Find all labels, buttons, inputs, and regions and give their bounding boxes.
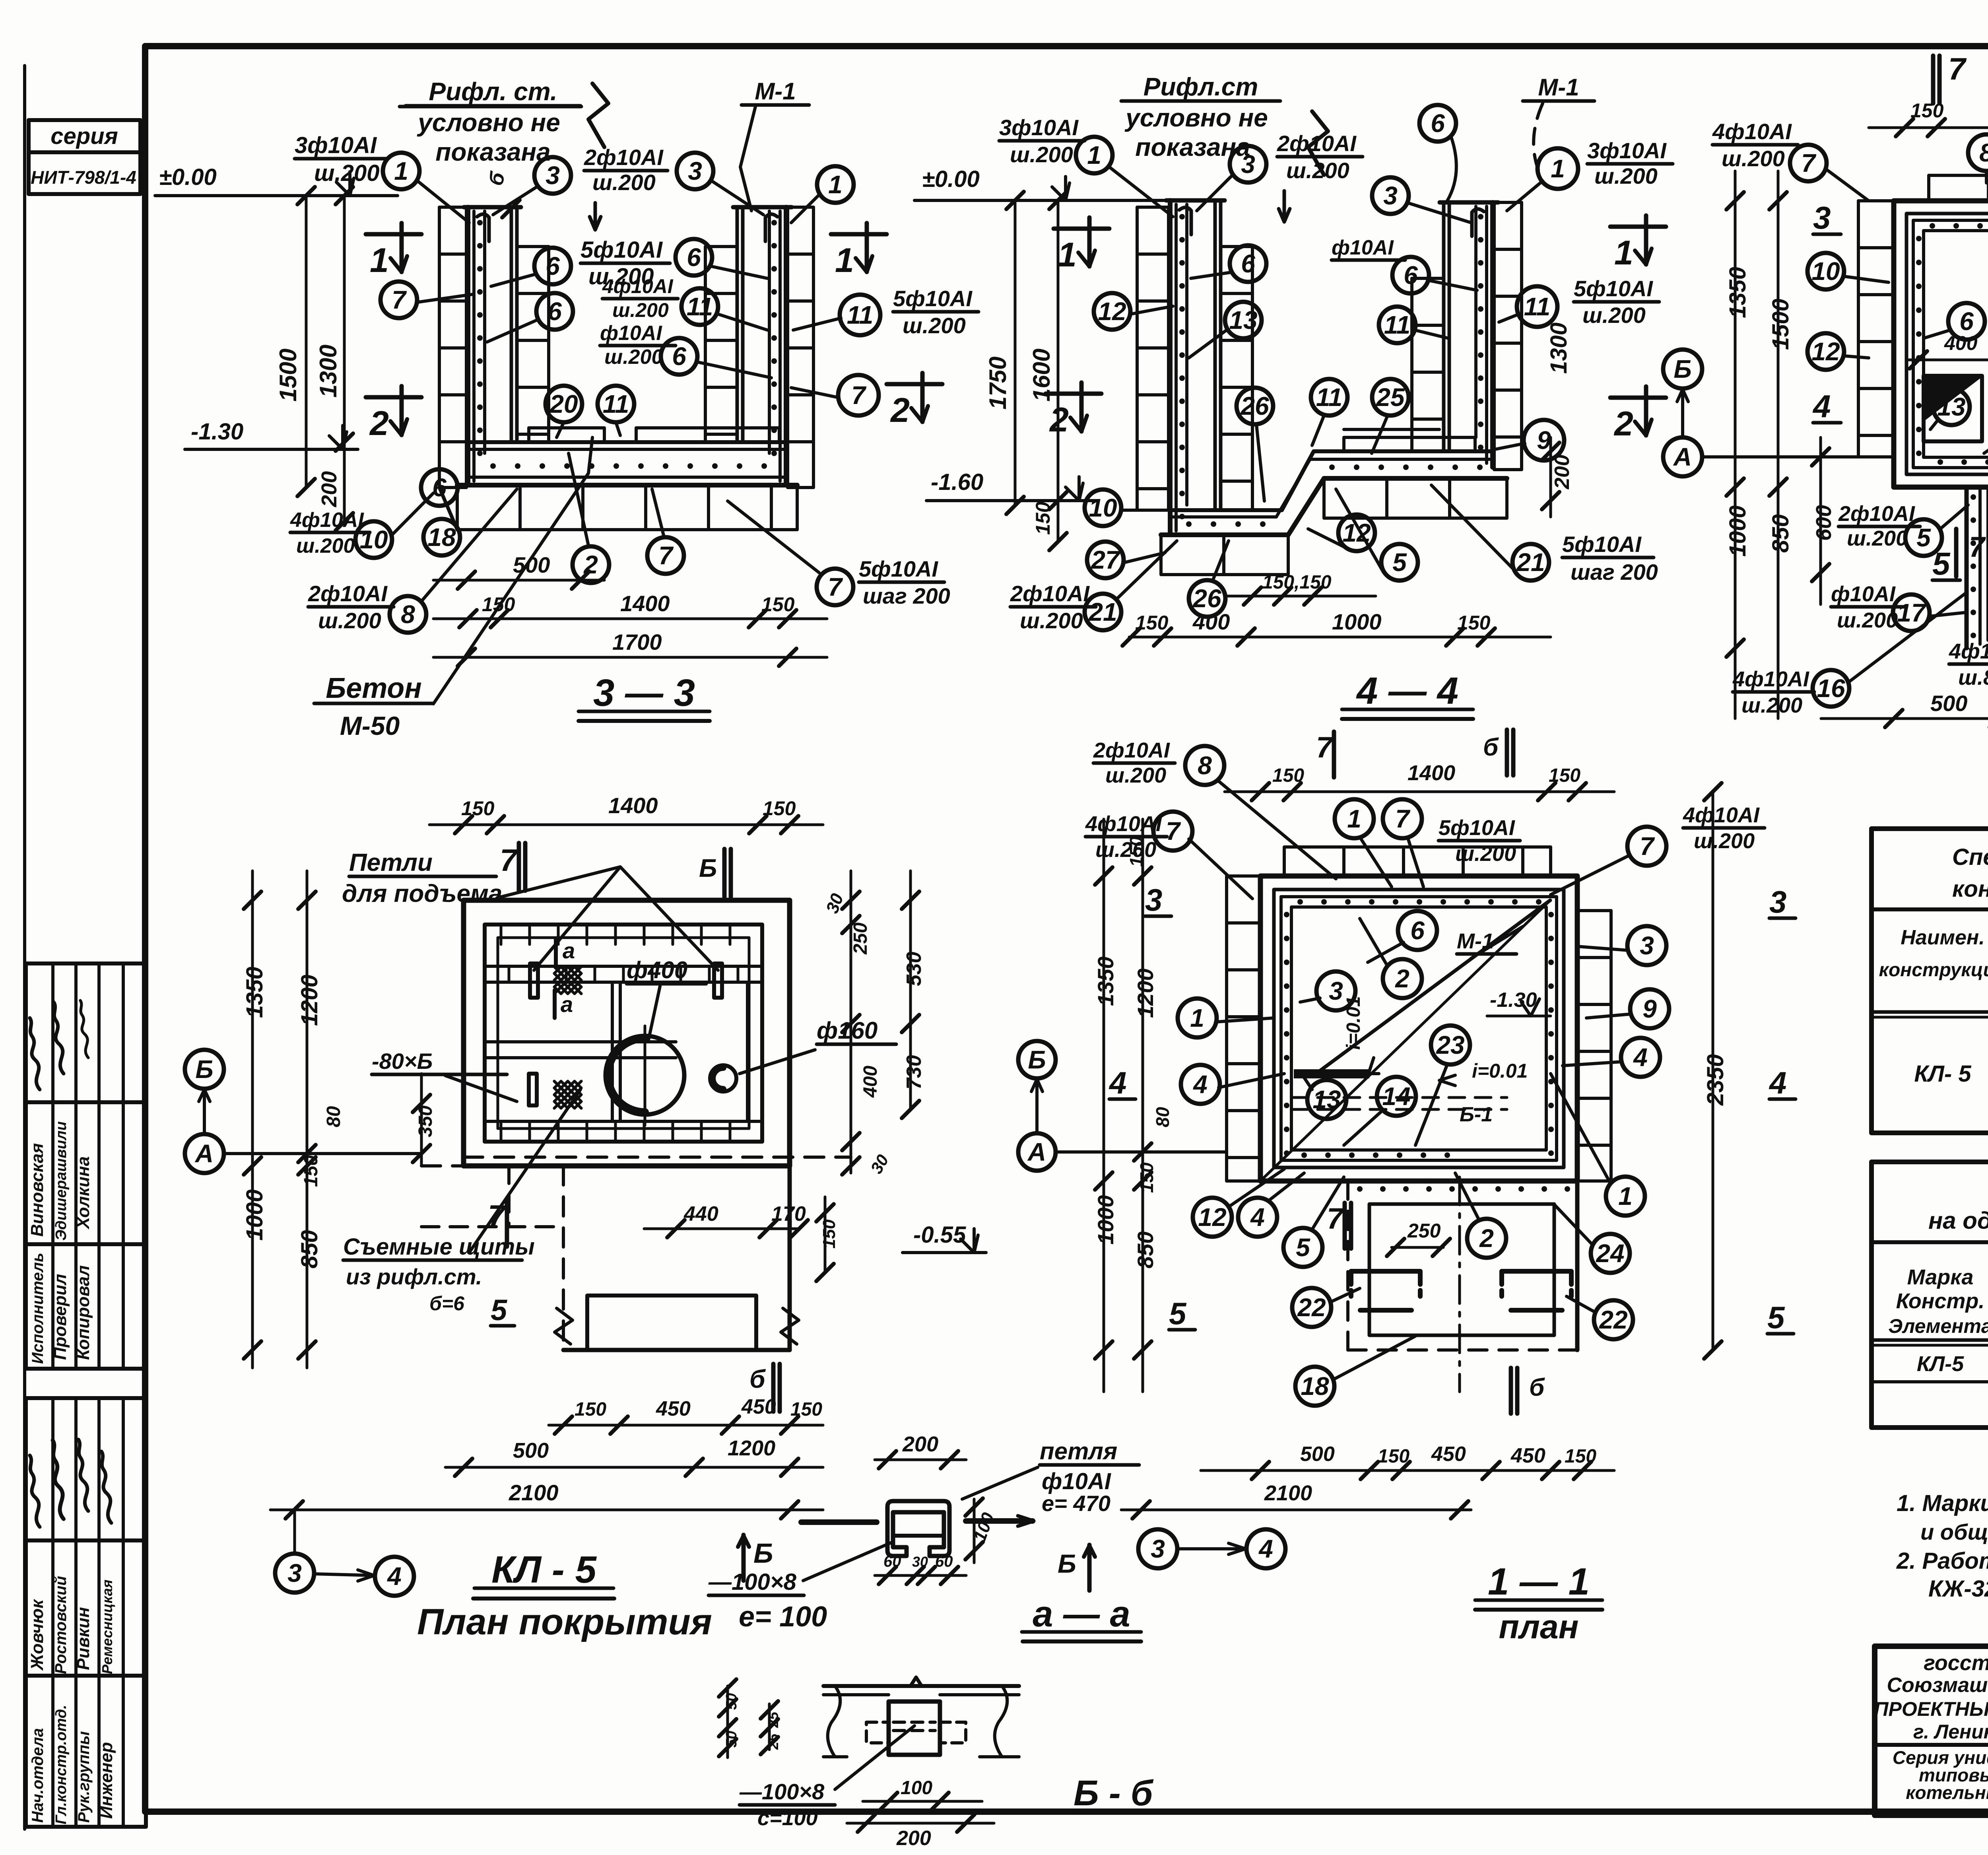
svg-text:500: 500 — [1930, 691, 1967, 716]
svg-text:НИТ-798/1-4: НИТ-798/1-4 — [31, 167, 136, 188]
svg-text:Ростовский: Ростовский — [52, 1576, 70, 1674]
svg-text:7: 7 — [488, 1198, 507, 1233]
svg-text:КЛ- 5: КЛ- 5 — [1914, 1061, 1971, 1087]
svg-text:ф10АI: ф10АI — [600, 322, 662, 345]
svg-text:шаг 200: шаг 200 — [863, 583, 950, 608]
svg-text:ш.200: ш.200 — [1722, 146, 1785, 171]
svg-text:2ф10АI: 2ф10АI — [584, 145, 664, 170]
svg-text:-1.30: -1.30 — [191, 419, 243, 445]
svg-text:3ф10АI: 3ф10АI — [295, 132, 377, 158]
svg-text:1750: 1750 — [984, 357, 1011, 410]
svg-text:3ф10АI: 3ф10АI — [1587, 138, 1667, 163]
2-2 interior positions — [1807, 223, 1988, 577]
svg-text:2ф10АI: 2ф10АI — [1010, 581, 1090, 606]
svg-text:5ф10АI: 5ф10АI — [1562, 532, 1642, 557]
план покрытия КЛ-5 — [421, 900, 851, 1350]
svg-text:450: 450 — [1431, 1443, 1466, 1466]
3-3 pos.6/18/10 bottom left — [290, 469, 460, 558]
svg-text:Эдишерашвили: Эдишерашвили — [53, 1121, 70, 1241]
svg-text:ф10АI: ф10АI — [1831, 582, 1896, 606]
svg-text:М-1: М-1 — [1538, 74, 1579, 101]
svg-text:26: 26 — [1192, 584, 1221, 613]
svg-text:2: 2 — [1049, 401, 1069, 439]
1-1 axis labels 3/4/5 — [1109, 882, 1796, 1335]
svg-text:4: 4 — [1769, 1065, 1786, 1100]
svg-text:2: 2 — [890, 391, 910, 429]
svg-text:3: 3 — [1813, 200, 1831, 235]
svg-text:25: 25 — [1376, 383, 1405, 412]
svg-text:6: 6 — [1410, 916, 1425, 945]
svg-text:из рифл.ст.: из рифл.ст. — [346, 1264, 482, 1289]
svg-text:Петли: Петли — [349, 849, 433, 876]
svg-text:ш.200: ш.200 — [1010, 142, 1073, 167]
svg-text:Жовчюк: Жовчюк — [27, 1599, 47, 1671]
2-2 bottom dimension chain — [1821, 682, 1988, 732]
svg-text:150: 150 — [1032, 501, 1054, 535]
svg-text:2: 2 — [369, 404, 389, 443]
svg-text:60: 60 — [935, 1553, 953, 1570]
svg-text:11: 11 — [687, 292, 713, 321]
svg-text:шаг 200: шаг 200 — [1571, 559, 1658, 585]
svg-text:Рифл.ст: Рифл.ст — [1143, 72, 1258, 101]
svg-text:6: 6 — [672, 342, 686, 371]
svg-text:-0.55: -0.55 — [913, 1222, 966, 1248]
4-4 pos.3 2ф10АI — [1197, 131, 1363, 222]
svg-text:4: 4 — [1250, 1203, 1265, 1231]
svg-text:1200: 1200 — [1133, 968, 1158, 1018]
3-3 cut mark 1 right — [831, 223, 887, 280]
svg-text:1: 1 — [1551, 154, 1565, 183]
3-3 note рифл.ст. условно не показана — [400, 77, 608, 166]
svg-text:1700: 1700 — [612, 629, 662, 655]
svg-text:11: 11 — [603, 390, 629, 418]
svg-text:ш.200: ш.200 — [1105, 763, 1166, 787]
svg-text:6: 6 — [1241, 249, 1255, 278]
svg-text:5ф10АI: 5ф10АI — [580, 237, 663, 263]
svg-text:8: 8 — [401, 600, 415, 629]
svg-text:2: 2 — [1395, 964, 1409, 993]
svg-text:М-50: М-50 — [340, 711, 400, 740]
svg-text:150: 150 — [575, 1399, 606, 1420]
svg-text:ш.200: ш.200 — [612, 299, 669, 321]
svg-text:б: б — [1529, 1374, 1545, 1401]
svg-text:-1.30: -1.30 — [1490, 989, 1537, 1012]
svg-text:13: 13 — [1229, 306, 1257, 334]
3-3 cut mark 2 — [366, 386, 421, 443]
svg-text:11: 11 — [847, 301, 873, 329]
план покрытия top dims — [429, 793, 823, 897]
svg-text:850: 850 — [1133, 1231, 1158, 1268]
svg-text:е= 470: е= 470 — [1042, 1491, 1110, 1516]
svg-text:200: 200 — [902, 1432, 938, 1456]
svg-text:7: 7 — [1801, 149, 1817, 177]
4-4 title — [1342, 670, 1473, 719]
3-3 title — [579, 672, 710, 721]
svg-text:10: 10 — [1089, 493, 1117, 522]
svg-text:18: 18 — [1301, 1372, 1329, 1400]
left trim line — [23, 66, 26, 1829]
svg-text:5ф10АI: 5ф10АI — [1439, 816, 1515, 840]
svg-text:а: а — [561, 992, 573, 1017]
3-3 bottom dimension chains — [433, 552, 827, 666]
svg-text:План покрытия: План покрытия — [417, 1602, 712, 1642]
svg-text:16: 16 — [1817, 674, 1845, 703]
svg-text:3: 3 — [1241, 150, 1255, 179]
svg-text:Б: Б — [1028, 1045, 1046, 1074]
svg-text:на один конструктивный элем: на один конструктивный элемент — [1928, 1207, 1988, 1234]
svg-text:7: 7 — [851, 381, 867, 410]
svg-text:26: 26 — [1240, 392, 1269, 420]
1-1 bottom positions — [1193, 1169, 1633, 1414]
svg-text:450: 450 — [741, 1395, 776, 1418]
svg-text:ш.200: ш.200 — [1020, 608, 1083, 633]
svg-text:ф400: ф400 — [627, 957, 687, 983]
svg-text:400: 400 — [1192, 609, 1230, 634]
svg-text:1000: 1000 — [1725, 505, 1751, 557]
svg-text:6: 6 — [1431, 109, 1445, 138]
svg-text:г. Ленинград 1967г.: г. Ленинград 1967г. — [1913, 1721, 1988, 1743]
svg-text:4 — 4: 4 — 4 — [1356, 670, 1458, 712]
svg-text:3: 3 — [1383, 181, 1398, 210]
а-а title — [1022, 1594, 1141, 1641]
4-4 note рифл.ст. — [1121, 72, 1328, 175]
svg-text:9: 9 — [1642, 995, 1657, 1023]
3-3 pos.6 5ф10АI ш.200 — [491, 237, 670, 289]
svg-text:1: 1 — [1614, 234, 1633, 272]
svg-text:7: 7 — [1316, 731, 1334, 764]
svg-text:а: а — [563, 938, 575, 963]
svg-text:500: 500 — [1300, 1443, 1335, 1466]
план покрытия label ф160 — [740, 1017, 896, 1074]
svg-text:4ф10АI: 4ф10АI — [1085, 812, 1162, 836]
svg-text:1: 1 — [1058, 236, 1077, 274]
4-4 pos.11 pair right — [1379, 276, 1659, 374]
а-а labels — [708, 1438, 1139, 1633]
svg-text:Б: Б — [753, 1538, 773, 1569]
svg-text:400: 400 — [860, 1066, 881, 1098]
svg-text:11: 11 — [1524, 292, 1550, 321]
series box серия НИТ-798/1-4 — [29, 120, 140, 194]
svg-text:100: 100 — [901, 1777, 932, 1799]
svg-text:3: 3 — [688, 157, 702, 185]
svg-text:5: 5 — [1767, 1300, 1785, 1335]
svg-text:петля: петля — [1040, 1438, 1117, 1465]
svg-text:Б: Б — [195, 1055, 213, 1084]
svg-text:1350: 1350 — [1725, 267, 1751, 318]
svg-text:i=0.01: i=0.01 — [1472, 1060, 1528, 1082]
svg-text:7: 7 — [392, 286, 407, 314]
svg-text:Инженер: Инженер — [97, 1742, 116, 1819]
svg-text:3: 3 — [287, 1559, 302, 1587]
svg-text:23: 23 — [1436, 1031, 1464, 1059]
svg-text:1: 1 — [1190, 1004, 1204, 1032]
svg-text:ш.200: ш.200 — [1582, 303, 1646, 328]
svg-text:КЛ - 5: КЛ - 5 — [491, 1548, 597, 1591]
3-3 pos.2 pos.7 pos.7 bottom — [569, 453, 950, 608]
3-3 pos.11 pos.7 far right — [791, 286, 978, 416]
svg-text:1: 1 — [835, 241, 854, 280]
svg-text:20: 20 — [549, 390, 578, 418]
svg-text:-1.60: -1.60 — [931, 469, 983, 495]
svg-text:4: 4 — [386, 1562, 402, 1591]
svg-text:850: 850 — [1768, 514, 1794, 553]
svg-text:i=0.01: i=0.01 — [1343, 996, 1364, 1050]
svg-text:7: 7 — [1166, 817, 1181, 845]
svg-text:13: 13 — [1937, 392, 1965, 421]
svg-text:4: 4 — [1258, 1535, 1273, 1563]
svg-text:ш.200: ш.200 — [1594, 163, 1658, 188]
svg-text:150: 150 — [1910, 99, 1944, 122]
svg-text:1400: 1400 — [608, 793, 658, 818]
svg-text:500: 500 — [513, 1439, 549, 1463]
svg-text:150: 150 — [1126, 836, 1147, 867]
svg-text:Б-1: Б-1 — [1460, 1103, 1493, 1126]
svg-text:б=6: б=6 — [429, 1292, 465, 1315]
svg-text:150: 150 — [1457, 612, 1491, 634]
3-3 pos.7 left — [381, 282, 473, 318]
1-1 bottom dims — [1121, 1443, 1614, 1519]
svg-text:150: 150 — [1565, 1446, 1596, 1467]
план покрытия left dims — [242, 871, 436, 1368]
svg-text:и общие примечания даны на: и общие примечания даны на листе кж-5 — [1920, 1519, 1988, 1544]
svg-text:5ф10АI: 5ф10АI — [1574, 276, 1653, 301]
svg-text:1350: 1350 — [1093, 956, 1118, 1006]
svg-text:план: план — [1499, 1608, 1578, 1645]
svg-text:440: 440 — [683, 1202, 718, 1226]
svg-text:12: 12 — [1098, 297, 1126, 326]
svg-text:4ф10АI: 4ф10АI — [1683, 803, 1760, 827]
svg-text:Б: Б — [1673, 355, 1691, 383]
svg-text:80: 80 — [323, 1106, 344, 1127]
svg-text:6: 6 — [687, 243, 701, 272]
3-3 pos.20 pos.11 above slab — [546, 386, 634, 437]
svg-text:150: 150 — [1136, 1162, 1157, 1193]
section 1-1 plan view — [1227, 847, 1611, 1392]
svg-text:1300: 1300 — [1546, 322, 1572, 374]
svg-text:Ривкин: Ривкин — [74, 1607, 93, 1670]
3-3 pos.3 and pos.1 right wall — [677, 153, 854, 223]
svg-text:4ф10АI: 4ф10АI — [602, 275, 674, 297]
а-а dims — [875, 1432, 998, 1584]
svg-text:б: б — [749, 1365, 766, 1393]
1-1 right dim 2350 — [1703, 783, 1728, 1359]
svg-text:250: 250 — [1407, 1220, 1441, 1242]
svg-text:6: 6 — [432, 473, 447, 502]
svg-text:3: 3 — [1151, 1535, 1165, 1563]
svg-text:150: 150 — [1549, 765, 1580, 786]
svg-text:150: 150 — [819, 1219, 839, 1249]
3-3 pos.8 2ф10АI — [308, 489, 517, 633]
3-3 pos.6 with ф10АI — [600, 322, 771, 378]
svg-text:ш.200: ш.200 — [314, 160, 379, 186]
план покрытия label съемные щиты — [343, 1090, 580, 1327]
svg-text:150: 150 — [763, 797, 796, 820]
svg-text:4: 4 — [1192, 1070, 1208, 1099]
margin signature table lower (Нач.отдела/Гл.констр.отд/Рук.группы/Инженер) — [26, 1398, 146, 1827]
svg-text:27: 27 — [1091, 546, 1121, 574]
4-4 bottom dimension chains — [1122, 572, 1551, 646]
1-1 U-bracket details — [1351, 1271, 1571, 1310]
svg-text:5: 5 — [1296, 1233, 1310, 1262]
3-3 pos.11 with 4ф10АI — [602, 275, 767, 330]
3-3 label 3ф10АI ш.200 with pos.1 — [295, 132, 469, 223]
1-1 interior positions — [1178, 911, 1669, 1216]
svg-text:6: 6 — [546, 252, 560, 280]
svg-text:150,150: 150,150 — [1262, 572, 1332, 593]
Б-Б dims — [719, 1679, 994, 1850]
section 2-2 plan view — [1858, 175, 1988, 648]
svg-text:2100: 2100 — [509, 1480, 559, 1505]
svg-text:600: 600 — [1812, 505, 1836, 541]
svg-text:4: 4 — [1812, 388, 1831, 424]
svg-text:10: 10 — [359, 525, 388, 554]
svg-text:7: 7 — [658, 541, 674, 570]
svg-text:условно не: условно не — [417, 108, 560, 137]
примечания notes — [1896, 1441, 1988, 1602]
svg-text:1: 1 — [1087, 141, 1101, 169]
svg-text:150: 150 — [1135, 612, 1169, 634]
svg-text:7: 7 — [500, 843, 518, 878]
svg-text:ПРОЕКТНЫЙ ИНСТИТУТ N1: ПРОЕКТНЫЙ ИНСТИТУТ N1 — [1874, 1698, 1988, 1720]
svg-text:11: 11 — [1316, 383, 1342, 412]
svg-text:530: 530 — [903, 952, 926, 986]
svg-text:3: 3 — [1145, 882, 1162, 917]
svg-text:3 — 3: 3 — 3 — [593, 672, 695, 714]
4-4 cut marks 1 — [1054, 218, 1109, 274]
svg-text:2100: 2100 — [1264, 1481, 1312, 1505]
svg-text:ш.200: ш.200 — [592, 170, 656, 195]
4-4 cut marks 2 — [1046, 383, 1101, 439]
svg-text:24: 24 — [1596, 1239, 1624, 1268]
svg-text:450: 450 — [1510, 1444, 1545, 1467]
svg-text:7: 7 — [1395, 804, 1411, 833]
svg-text:1: 1 — [394, 157, 408, 185]
svg-text:25: 25 — [765, 1733, 781, 1750]
svg-text:21: 21 — [1516, 548, 1545, 577]
svg-text:ш.200: ш.200 — [1847, 526, 1908, 550]
2-2 lower labels — [1732, 502, 1988, 717]
svg-text:с=100: с=100 — [757, 1806, 818, 1830]
4-4 left dimension chain 1750/1600/150 — [984, 192, 1067, 550]
svg-text:150: 150 — [1378, 1446, 1409, 1467]
4-4 pos.6 pos.12 pos.13 left wall — [1094, 245, 1266, 358]
svg-text:конструкций на лист.: конструкций на лист. — [1952, 876, 1988, 902]
4-4 pos.9 right — [1495, 420, 1574, 517]
svg-text:Наимен.: Наимен. — [1901, 926, 1984, 949]
svg-text:Б: Б — [699, 854, 717, 882]
svg-text:1200: 1200 — [728, 1436, 775, 1460]
svg-text:22: 22 — [1599, 1305, 1627, 1334]
detail а-а C-profile — [801, 1501, 1034, 1556]
4-4 pos.6 top right — [1419, 105, 1456, 201]
detail Б-Б embed plate — [823, 1677, 1019, 1757]
svg-text:ф10АI: ф10АI — [1332, 236, 1394, 259]
svg-text:конструкции: конструкции — [1879, 960, 1988, 981]
3-3 cut mark 1 — [366, 223, 421, 280]
svg-text:1: 1 — [1618, 1182, 1633, 1210]
svg-text:ф160: ф160 — [817, 1017, 878, 1044]
svg-text:4: 4 — [1109, 1065, 1126, 1100]
svg-text:8: 8 — [1198, 751, 1212, 780]
svg-text:30: 30 — [912, 1554, 928, 1570]
svg-text:25: 25 — [765, 1711, 781, 1728]
svg-text:4: 4 — [1633, 1043, 1648, 1072]
svg-text:1: 1 — [828, 170, 843, 199]
svg-text:Б: Б — [1058, 1549, 1076, 1578]
section 3-3 channel cross-section — [439, 207, 813, 530]
svg-text:3: 3 — [1769, 884, 1786, 919]
section 4-4 channel cross-section — [1137, 200, 1522, 575]
1-1 left axis circles Б/А — [1018, 1041, 1227, 1171]
svg-text:850: 850 — [297, 1230, 322, 1268]
svg-text:1400: 1400 — [1408, 761, 1455, 785]
svg-text:6: 6 — [547, 297, 562, 326]
svg-text:ш.200: ш.200 — [903, 313, 966, 338]
svg-text:5ф10АI: 5ф10АI — [859, 556, 938, 581]
svg-text:Нач.отдела: Нач.отдела — [29, 1728, 47, 1823]
4-4 level +-0.00 — [914, 166, 1170, 200]
margin signature table upper (Исполнитель/Проверил/Копировал) — [26, 963, 146, 1369]
svg-text:Копировал: Копировал — [74, 1265, 93, 1360]
svg-text:А: А — [1027, 1138, 1046, 1166]
svg-text:а — а: а — а — [1033, 1594, 1130, 1634]
svg-text:1. Маркировочный план фунда: 1. Маркировочный план фундаментов — [1897, 1490, 1988, 1516]
svg-text:5ф10АI: 5ф10АI — [893, 286, 973, 311]
svg-text:е= 100: е= 100 — [739, 1601, 827, 1633]
svg-text:ш.800: ш.800 — [1958, 666, 1988, 690]
svg-text:22: 22 — [1297, 1293, 1326, 1322]
svg-text:5: 5 — [491, 1294, 508, 1327]
svg-text:1300: 1300 — [315, 345, 342, 398]
svg-text:1000: 1000 — [1332, 609, 1382, 634]
3-3 pos.6 mid — [487, 293, 573, 342]
4-4 pos.26/11/25 above slab — [1237, 379, 1439, 501]
svg-text:2: 2 — [1479, 1224, 1494, 1253]
svg-text:3ф10АI: 3ф10АI — [999, 115, 1079, 140]
svg-text:7: 7 — [1327, 1202, 1345, 1235]
4-4 pos.6 ф10АI mid — [1332, 236, 1477, 293]
3-3 pos.6 right — [676, 239, 767, 278]
svg-text:1400: 1400 — [620, 591, 670, 616]
3-3 cut mark 2 right — [887, 373, 942, 429]
svg-text:5: 5 — [1392, 548, 1407, 577]
svg-text:7: 7 — [1969, 531, 1986, 563]
план покрытия left axis Б/А — [185, 1050, 421, 1173]
svg-text:17: 17 — [1897, 598, 1927, 627]
svg-text:10: 10 — [1811, 257, 1840, 286]
4-4 label 3ф10АI pos.1 left — [999, 115, 1173, 217]
svg-text:госстрой СССР: госстрой СССР — [1924, 1651, 1988, 1675]
svg-text:50: 50 — [723, 1693, 740, 1710]
4-4 pos.10/27/21 bottom left — [1010, 489, 1177, 633]
svg-text:8: 8 — [1979, 138, 1988, 167]
svg-text:А: А — [1673, 443, 1692, 471]
title block stamp — [1874, 1646, 1988, 1817]
svg-text:котельных с котлами: котельных с котлами — [1906, 1782, 1988, 1803]
svg-text:50: 50 — [723, 1731, 740, 1748]
svg-text:условно не: условно не — [1124, 103, 1268, 132]
svg-text:КЖ-32: КЖ-32 — [1928, 1576, 1988, 1602]
а-а axis circles 3-4 — [1138, 1529, 1285, 1568]
svg-text:4ф10АI: 4ф10АI — [1732, 667, 1809, 691]
svg-text:80: 80 — [1152, 1107, 1173, 1127]
svg-text:ш.200: ш.200 — [1286, 158, 1349, 183]
svg-text:6: 6 — [1959, 307, 1974, 336]
3-3 label М-1 — [740, 78, 809, 211]
svg-text:350: 350 — [415, 1105, 436, 1137]
spec table сборных и металлических конструкций — [1872, 829, 1988, 1133]
svg-text:1500: 1500 — [1768, 299, 1794, 350]
